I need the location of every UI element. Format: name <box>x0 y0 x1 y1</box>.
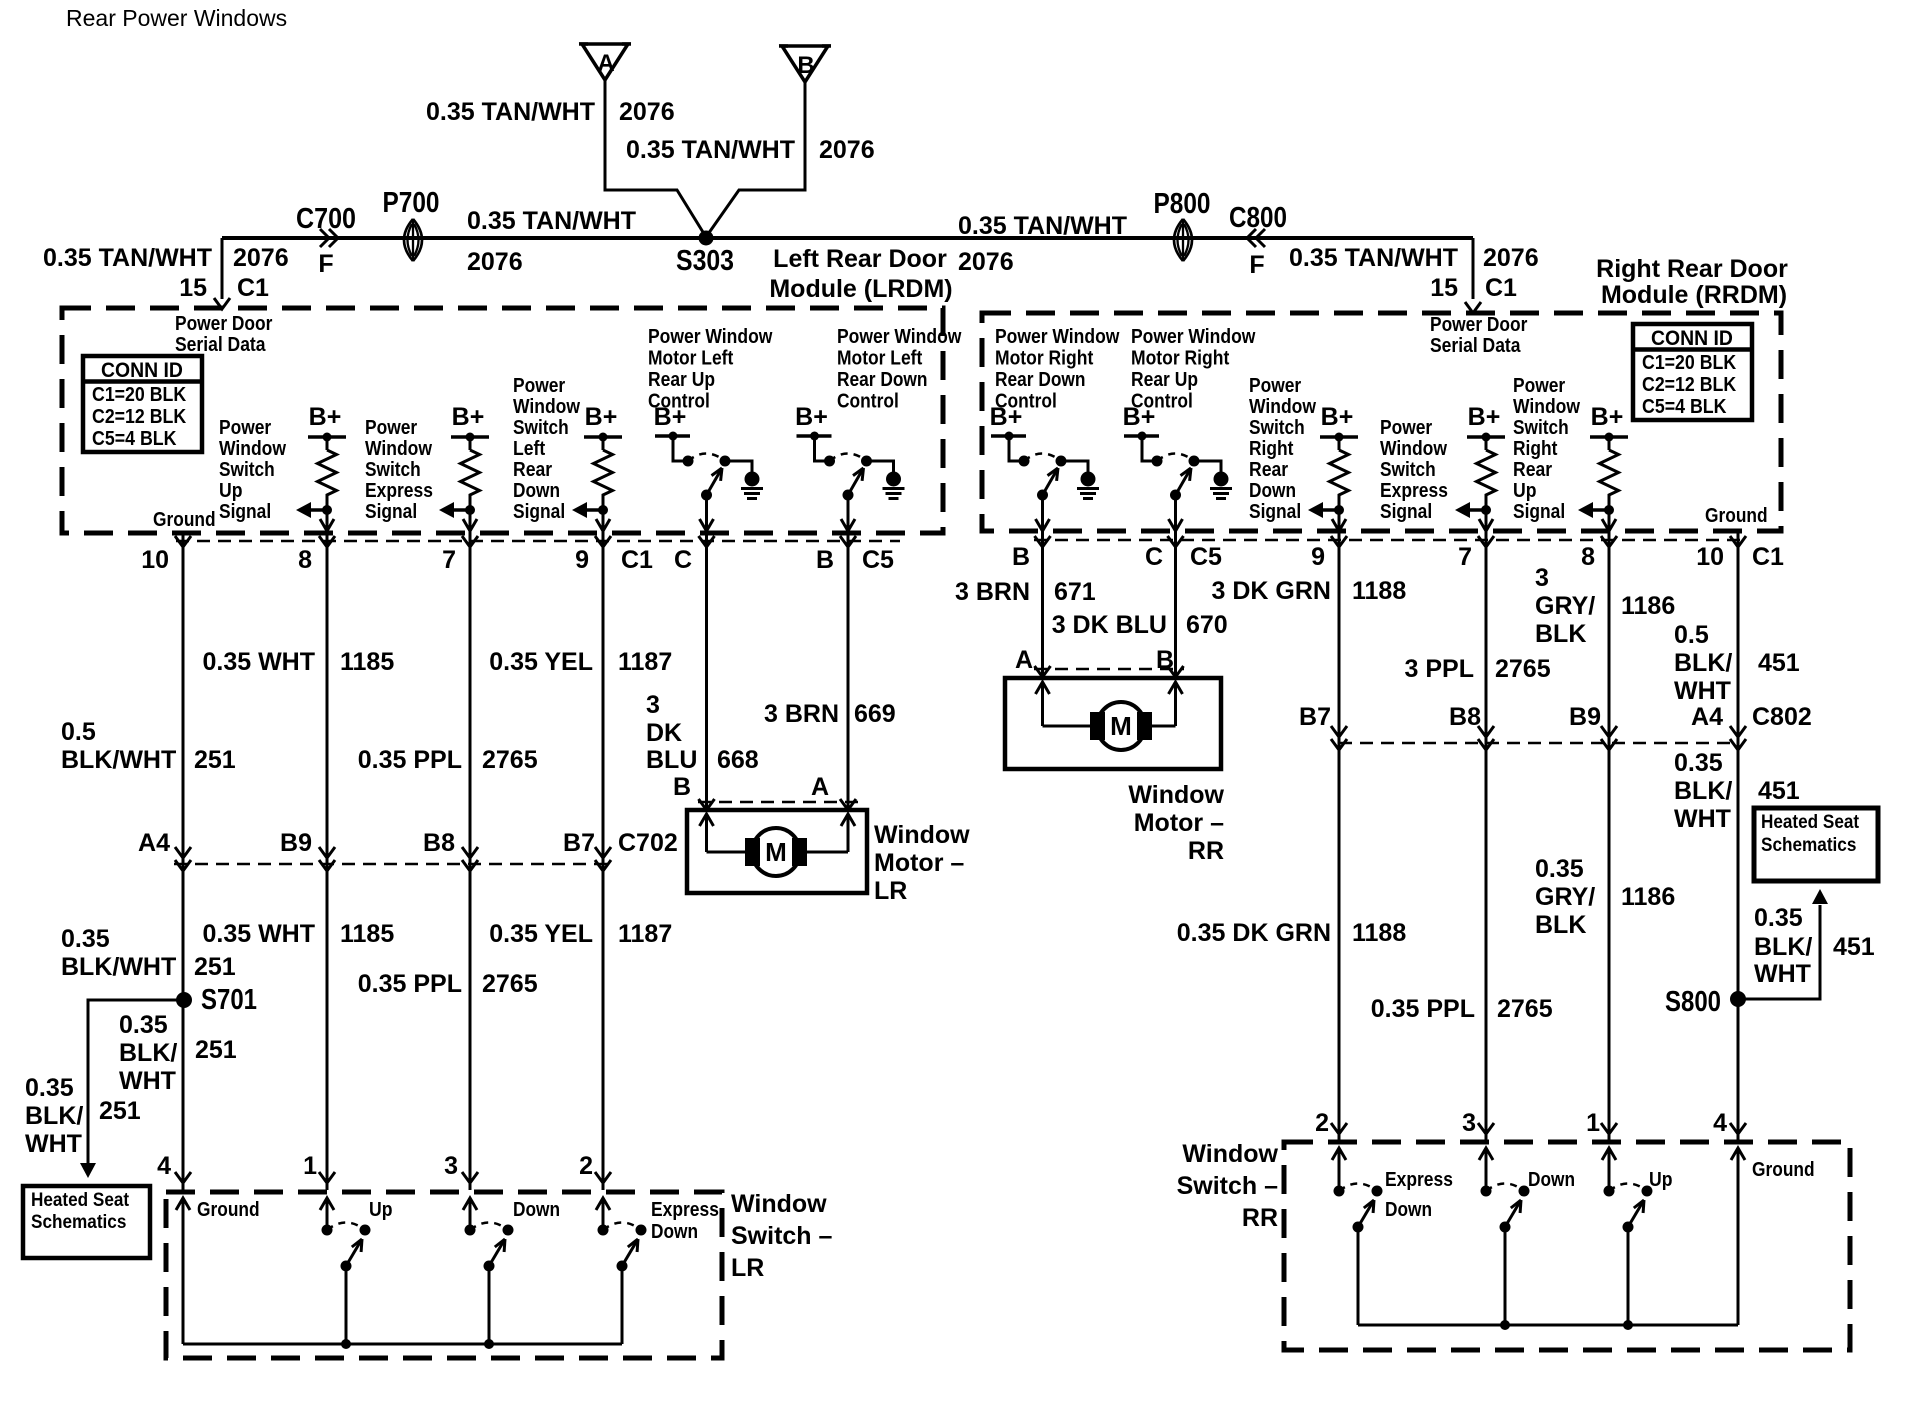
svg-text:A4: A4 <box>1691 703 1723 731</box>
svg-text:Switch: Switch <box>1249 417 1305 439</box>
svg-text:B: B <box>673 773 691 801</box>
svg-text:Right Rear Door: Right Rear Door <box>1596 255 1788 283</box>
svg-text:A: A <box>811 773 829 801</box>
svg-text:3: 3 <box>646 691 660 719</box>
svg-text:Left Rear Door: Left Rear Door <box>773 245 947 273</box>
svg-text:10: 10 <box>141 546 169 574</box>
svg-text:S701: S701 <box>201 984 257 1016</box>
svg-text:S800: S800 <box>1665 986 1721 1018</box>
svg-text:B: B <box>1012 543 1030 571</box>
svg-text:C800: C800 <box>1229 202 1287 234</box>
svg-text:WHT: WHT <box>1674 805 1731 833</box>
svg-text:F: F <box>1249 251 1264 279</box>
svg-text:Signal: Signal <box>513 501 565 523</box>
svg-text:0.35 TAN/WHT: 0.35 TAN/WHT <box>426 98 595 126</box>
svg-text:0.35 WHT: 0.35 WHT <box>202 648 315 676</box>
svg-text:Express: Express <box>1380 480 1448 502</box>
svg-text:B7: B7 <box>563 829 595 857</box>
svg-text:Window: Window <box>1513 396 1580 418</box>
svg-text:Express: Express <box>651 1199 719 1221</box>
svg-text:Power Door: Power Door <box>175 313 273 335</box>
svg-text:C1: C1 <box>1752 543 1784 571</box>
svg-text:P800: P800 <box>1154 188 1211 220</box>
svg-text:Down: Down <box>513 1199 560 1221</box>
svg-text:WHT: WHT <box>1754 960 1811 988</box>
svg-text:Heated Seat: Heated Seat <box>31 1190 130 1211</box>
svg-text:C1=20 BLK: C1=20 BLK <box>92 384 187 406</box>
svg-text:0.35 PPL: 0.35 PPL <box>1371 995 1475 1023</box>
svg-text:1185: 1185 <box>340 648 394 676</box>
svg-text:Rear: Rear <box>1513 459 1552 481</box>
svg-text:15: 15 <box>179 274 207 302</box>
svg-text:Motor –: Motor – <box>1134 809 1224 837</box>
svg-text:3: 3 <box>1535 564 1549 592</box>
svg-text:0.35: 0.35 <box>1754 904 1803 932</box>
svg-text:251: 251 <box>99 1097 141 1125</box>
svg-text:10: 10 <box>1696 543 1724 571</box>
svg-text:Switch: Switch <box>219 459 275 481</box>
svg-text:0.35 TAN/WHT: 0.35 TAN/WHT <box>1289 244 1458 272</box>
svg-text:C2=12 BLK: C2=12 BLK <box>92 406 187 428</box>
svg-text:F: F <box>318 250 333 278</box>
svg-text:Switch: Switch <box>1513 417 1569 439</box>
svg-text:0.35 PPL: 0.35 PPL <box>358 970 462 998</box>
svg-text:Rear Down: Rear Down <box>837 369 928 391</box>
svg-text:0.5: 0.5 <box>1674 621 1709 649</box>
svg-text:9: 9 <box>1311 543 1325 571</box>
svg-text:Up: Up <box>369 1199 393 1221</box>
svg-text:7: 7 <box>1458 543 1472 571</box>
svg-text:GRY/: GRY/ <box>1535 592 1595 620</box>
svg-text:Ground: Ground <box>153 509 216 531</box>
svg-text:Window: Window <box>513 396 580 418</box>
svg-text:B+: B+ <box>795 403 828 431</box>
svg-text:Window: Window <box>1380 438 1447 460</box>
svg-text:B+: B+ <box>1321 403 1354 431</box>
svg-text:671: 671 <box>1054 578 1096 606</box>
svg-text:1186: 1186 <box>1621 592 1675 620</box>
svg-text:Power Window: Power Window <box>995 326 1120 348</box>
svg-text:C: C <box>674 546 692 574</box>
svg-text:Serial Data: Serial Data <box>1430 335 1521 357</box>
svg-text:Ground: Ground <box>1705 505 1768 527</box>
svg-text:Signal: Signal <box>1249 501 1301 523</box>
svg-text:B8: B8 <box>1449 703 1481 731</box>
svg-text:451: 451 <box>1758 777 1800 805</box>
svg-text:7: 7 <box>442 546 456 574</box>
svg-text:3 BRN: 3 BRN <box>764 700 839 728</box>
svg-text:1186: 1186 <box>1621 883 1675 911</box>
svg-text:1187: 1187 <box>618 920 672 948</box>
svg-text:Switch –: Switch – <box>731 1222 833 1250</box>
svg-text:3: 3 <box>444 1152 458 1180</box>
svg-text:A: A <box>1015 646 1033 674</box>
svg-text:A4: A4 <box>138 829 170 857</box>
svg-text:0.35 YEL: 0.35 YEL <box>489 920 593 948</box>
svg-text:BLK/: BLK/ <box>1754 933 1812 961</box>
svg-text:4: 4 <box>157 1152 171 1180</box>
svg-text:3 DK GRN: 3 DK GRN <box>1212 577 1331 605</box>
svg-text:Power Window: Power Window <box>837 326 962 348</box>
svg-text:C1: C1 <box>237 274 269 302</box>
svg-text:0.35: 0.35 <box>1674 749 1723 777</box>
svg-text:Window: Window <box>1128 781 1224 809</box>
svg-text:Switch: Switch <box>513 417 569 439</box>
svg-text:BLK/: BLK/ <box>1674 777 1732 805</box>
svg-text:B+: B+ <box>990 403 1023 431</box>
svg-text:451: 451 <box>1833 933 1875 961</box>
svg-text:Rear: Rear <box>1249 459 1288 481</box>
svg-text:Down: Down <box>1249 480 1296 502</box>
svg-text:BLK/WHT: BLK/WHT <box>61 953 176 981</box>
svg-text:Window: Window <box>219 438 286 460</box>
svg-text:B+: B+ <box>1591 403 1624 431</box>
svg-text:C5=4 BLK: C5=4 BLK <box>1642 396 1727 418</box>
svg-text:B: B <box>797 52 814 79</box>
svg-text:2076: 2076 <box>619 98 675 126</box>
svg-text:RR: RR <box>1188 837 1224 865</box>
svg-text:3: 3 <box>1462 1109 1476 1137</box>
svg-text:WHT: WHT <box>119 1067 176 1095</box>
svg-text:Down: Down <box>1385 1199 1432 1221</box>
svg-text:C: C <box>1145 543 1163 571</box>
svg-text:C702: C702 <box>618 829 678 857</box>
svg-text:Motor –: Motor – <box>874 849 964 877</box>
svg-text:C700: C700 <box>296 203 356 235</box>
svg-text:251: 251 <box>194 746 236 774</box>
svg-text:B+: B+ <box>654 403 687 431</box>
svg-text:8: 8 <box>1581 543 1595 571</box>
svg-text:Power: Power <box>1380 417 1432 439</box>
svg-text:Up: Up <box>1513 480 1537 502</box>
svg-text:Motor Right: Motor Right <box>1131 348 1230 370</box>
svg-text:251: 251 <box>195 1036 237 1064</box>
svg-text:Switch: Switch <box>1380 459 1436 481</box>
svg-text:15: 15 <box>1430 274 1458 302</box>
svg-text:B+: B+ <box>452 403 485 431</box>
svg-text:BLK: BLK <box>1535 620 1586 648</box>
svg-text:1188: 1188 <box>1352 919 1406 947</box>
svg-text:Power Door: Power Door <box>1430 314 1528 336</box>
svg-text:0.35 TAN/WHT: 0.35 TAN/WHT <box>467 207 636 235</box>
svg-text:S303: S303 <box>676 245 734 277</box>
svg-text:BLK/: BLK/ <box>119 1039 177 1067</box>
svg-text:Motor Left: Motor Left <box>648 348 734 370</box>
svg-text:C5: C5 <box>862 546 894 574</box>
svg-text:CONN ID: CONN ID <box>1651 327 1733 350</box>
svg-text:BLK/: BLK/ <box>25 1102 83 1130</box>
svg-text:2765: 2765 <box>482 970 538 998</box>
svg-text:0.35: 0.35 <box>61 925 110 953</box>
svg-text:Window: Window <box>731 1190 827 1218</box>
svg-text:451: 451 <box>1758 649 1800 677</box>
svg-text:0.35 PPL: 0.35 PPL <box>358 746 462 774</box>
svg-text:Rear: Rear <box>513 459 552 481</box>
svg-text:1187: 1187 <box>618 648 672 676</box>
svg-text:B: B <box>1156 646 1174 674</box>
svg-text:B+: B+ <box>1468 403 1501 431</box>
svg-text:WHT: WHT <box>1674 677 1731 705</box>
svg-text:669: 669 <box>854 700 896 728</box>
svg-text:2765: 2765 <box>1495 655 1551 683</box>
svg-text:Rear Power Windows: Rear Power Windows <box>66 5 287 31</box>
svg-text:B: B <box>816 546 834 574</box>
svg-text:2076: 2076 <box>467 248 523 276</box>
svg-text:C1: C1 <box>621 546 653 574</box>
svg-text:C802: C802 <box>1752 703 1812 731</box>
svg-text:Power Window: Power Window <box>1131 326 1256 348</box>
svg-text:2: 2 <box>579 1152 593 1180</box>
svg-text:BLK/: BLK/ <box>1674 649 1732 677</box>
svg-text:0.35 TAN/WHT: 0.35 TAN/WHT <box>43 244 212 272</box>
svg-text:Express: Express <box>365 480 433 502</box>
svg-text:2076: 2076 <box>233 244 289 272</box>
svg-text:Up: Up <box>1649 1169 1673 1191</box>
svg-text:4: 4 <box>1713 1109 1727 1137</box>
svg-text:Signal: Signal <box>365 501 417 523</box>
svg-text:Down: Down <box>513 480 560 502</box>
svg-text:Left: Left <box>513 438 545 460</box>
svg-text:0.35: 0.35 <box>25 1074 74 1102</box>
svg-text:Window: Window <box>874 821 970 849</box>
svg-text:Power: Power <box>219 417 271 439</box>
svg-text:2765: 2765 <box>1497 995 1553 1023</box>
svg-text:LR: LR <box>731 1254 764 1282</box>
svg-text:C1=20 BLK: C1=20 BLK <box>1642 352 1737 374</box>
svg-text:WHT: WHT <box>25 1130 82 1158</box>
svg-text:DK: DK <box>646 719 682 747</box>
svg-text:BLU: BLU <box>646 746 697 774</box>
svg-text:Signal: Signal <box>1513 501 1565 523</box>
svg-text:Rear Down: Rear Down <box>995 369 1086 391</box>
svg-text:3 BRN: 3 BRN <box>955 578 1030 606</box>
svg-text:BLK/WHT: BLK/WHT <box>61 746 176 774</box>
svg-text:0.35 DK GRN: 0.35 DK GRN <box>1177 919 1331 947</box>
svg-text:B9: B9 <box>1569 703 1601 731</box>
svg-text:Signal: Signal <box>1380 501 1432 523</box>
svg-text:C5: C5 <box>1190 543 1222 571</box>
svg-text:M: M <box>1110 711 1132 741</box>
svg-text:Power: Power <box>1513 375 1565 397</box>
svg-text:9: 9 <box>575 546 589 574</box>
svg-text:1: 1 <box>303 1152 317 1180</box>
svg-text:C5=4 BLK: C5=4 BLK <box>92 428 177 450</box>
svg-text:2076: 2076 <box>958 248 1014 276</box>
svg-text:1188: 1188 <box>1352 577 1406 605</box>
svg-text:2076: 2076 <box>819 136 875 164</box>
svg-text:Express: Express <box>1385 1169 1453 1191</box>
svg-text:C1: C1 <box>1485 274 1517 302</box>
svg-text:M: M <box>765 837 787 867</box>
svg-text:Control: Control <box>837 391 899 413</box>
svg-text:BLK: BLK <box>1535 911 1586 939</box>
svg-text:GRY/: GRY/ <box>1535 883 1595 911</box>
svg-text:0.5: 0.5 <box>61 718 96 746</box>
svg-text:670: 670 <box>1186 611 1228 639</box>
svg-text:3 PPL: 3 PPL <box>1405 655 1474 683</box>
svg-text:Rear Up: Rear Up <box>648 369 715 391</box>
svg-text:Module (LRDM): Module (LRDM) <box>769 275 952 303</box>
svg-text:0.35 TAN/WHT: 0.35 TAN/WHT <box>958 212 1127 240</box>
svg-text:B7: B7 <box>1299 703 1331 731</box>
svg-text:Down: Down <box>651 1221 698 1243</box>
svg-text:Schematics: Schematics <box>31 1212 126 1233</box>
svg-text:Signal: Signal <box>219 501 271 523</box>
svg-text:Module (RRDM): Module (RRDM) <box>1601 281 1787 309</box>
svg-text:B+: B+ <box>585 403 618 431</box>
svg-text:P700: P700 <box>383 187 440 219</box>
svg-text:Ground: Ground <box>197 1199 260 1221</box>
svg-text:2076: 2076 <box>1483 244 1539 272</box>
svg-text:Serial Data: Serial Data <box>175 334 266 356</box>
svg-text:0.35 TAN/WHT: 0.35 TAN/WHT <box>626 136 795 164</box>
svg-text:Ground: Ground <box>1752 1159 1815 1181</box>
svg-text:Window: Window <box>1249 396 1316 418</box>
svg-text:C2=12 BLK: C2=12 BLK <box>1642 374 1737 396</box>
svg-text:Window: Window <box>365 438 432 460</box>
svg-text:Rear Up: Rear Up <box>1131 369 1198 391</box>
svg-text:B8: B8 <box>423 829 455 857</box>
svg-text:0.35: 0.35 <box>1535 855 1584 883</box>
svg-text:251: 251 <box>194 953 236 981</box>
svg-text:Window: Window <box>1182 1140 1278 1168</box>
svg-text:2: 2 <box>1315 1109 1329 1137</box>
svg-text:0.35: 0.35 <box>119 1011 168 1039</box>
svg-text:CONN ID: CONN ID <box>101 359 183 382</box>
svg-text:Power: Power <box>1249 375 1301 397</box>
svg-text:Schematics: Schematics <box>1761 835 1856 856</box>
svg-text:B+: B+ <box>1123 403 1156 431</box>
svg-text:8: 8 <box>298 546 312 574</box>
svg-text:0.35 WHT: 0.35 WHT <box>202 920 315 948</box>
svg-text:B9: B9 <box>280 829 312 857</box>
svg-text:Heated Seat: Heated Seat <box>1761 812 1860 833</box>
svg-text:Power: Power <box>513 375 565 397</box>
svg-text:Switch –: Switch – <box>1177 1172 1279 1200</box>
svg-text:Power Window: Power Window <box>648 326 773 348</box>
svg-text:Down: Down <box>1528 1169 1575 1191</box>
svg-text:1: 1 <box>1586 1109 1600 1137</box>
svg-text:0.35 YEL: 0.35 YEL <box>489 648 593 676</box>
svg-text:2765: 2765 <box>482 746 538 774</box>
svg-text:Power: Power <box>365 417 417 439</box>
svg-text:Up: Up <box>219 480 243 502</box>
svg-text:LR: LR <box>874 877 907 905</box>
svg-text:Motor Left: Motor Left <box>837 348 923 370</box>
svg-text:3 DK BLU: 3 DK BLU <box>1052 611 1167 639</box>
svg-text:1185: 1185 <box>340 920 394 948</box>
svg-text:Right: Right <box>1513 438 1558 460</box>
svg-text:B+: B+ <box>309 403 342 431</box>
svg-text:Right: Right <box>1249 438 1294 460</box>
svg-text:Motor Right: Motor Right <box>995 348 1094 370</box>
svg-text:A: A <box>597 50 614 77</box>
svg-text:RR: RR <box>1242 1204 1278 1232</box>
svg-text:Switch: Switch <box>365 459 421 481</box>
svg-text:668: 668 <box>717 746 759 774</box>
